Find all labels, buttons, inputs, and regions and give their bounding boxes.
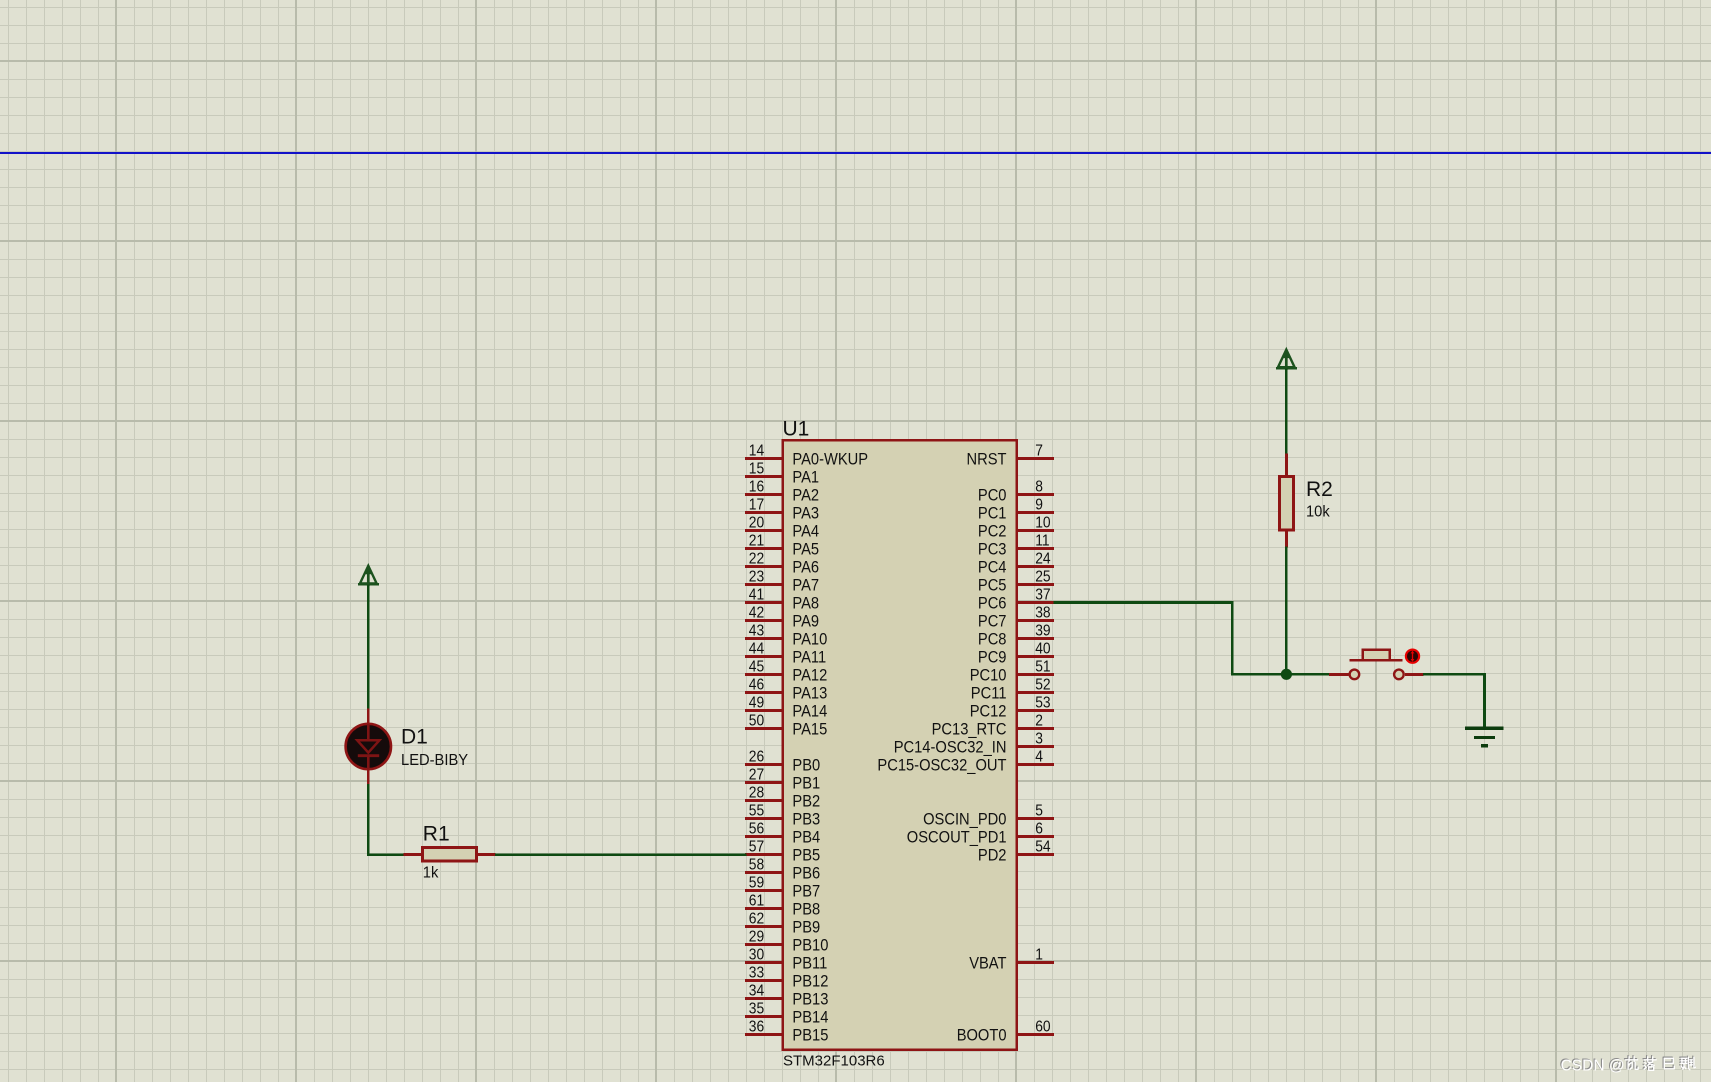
U1 pin 40 PC9 [978,640,1054,666]
svg-text:1: 1 [1035,946,1043,963]
U1 pin 36 PB15 [745,1018,829,1044]
svg-text:PC10: PC10 [970,666,1007,685]
svg-text:17: 17 [749,496,764,513]
svg-text:26: 26 [749,748,764,765]
svg-text:PB2: PB2 [792,792,820,811]
U1 pin 27 PB1 [745,766,820,792]
U1 pin 60 BOOT0 [957,1018,1054,1044]
svg-text:D1: D1 [401,726,428,749]
svg-text:56: 56 [749,820,764,837]
svg-text:42: 42 [749,604,764,621]
svg-text:PA11: PA11 [792,648,826,667]
U1 pin 57 PB5 [745,838,820,864]
svg-text:PC1: PC1 [978,504,1007,523]
svg-text:PA7: PA7 [792,576,819,595]
U1 pin 46 PA13 [745,676,827,702]
resistor R2 [1278,454,1295,548]
svg-text:OSCIN_PD0: OSCIN_PD0 [923,810,1006,829]
watermark CJK char yi [1663,1057,1673,1068]
svg-text:PB6: PB6 [792,864,820,883]
svg-text:PA2: PA2 [792,486,819,505]
svg-text:24: 24 [1035,550,1050,567]
svg-text:PB3: PB3 [792,810,820,829]
wire power to R2 [1285,369,1288,455]
svg-text:U1: U1 [783,418,810,441]
watermark CJK char hua [1625,1056,1638,1069]
U1 pin 7 NRST [967,442,1054,468]
svg-text:14: 14 [749,442,764,459]
svg-text:PA14: PA14 [792,702,827,721]
U1 pin 43 PA10 [745,622,827,648]
svg-text:PB5: PB5 [792,846,820,865]
svg-text:PA13: PA13 [792,684,827,703]
svg-text:PC2: PC2 [978,522,1007,541]
U1 pin 54 PD2 [978,838,1054,864]
U1 pin 16 PA2 [745,478,819,504]
push button (switch) [1329,649,1423,680]
svg-text:46: 46 [749,676,764,693]
svg-text:PB1: PB1 [792,774,820,793]
wire U1 PC6 to corner [1054,601,1234,604]
svg-text:PA15: PA15 [792,720,827,739]
wire power to D1 anode [367,585,370,710]
svg-text:43: 43 [749,622,764,639]
U1 pin 39 PC8 [978,622,1054,648]
U1 pin 56 PB4 [745,820,820,846]
U1 pin 34 PB13 [745,982,829,1008]
svg-text:52: 52 [1035,676,1050,693]
svg-text:27: 27 [749,766,764,783]
svg-text:VBAT: VBAT [969,954,1006,973]
U1 pin 17 PA3 [745,496,819,522]
svg-text:PB10: PB10 [792,936,828,955]
ground symbol [1465,727,1504,748]
svg-text:PA9: PA9 [792,612,819,631]
U1 pin 55 PB3 [745,802,820,828]
U1 pin 1 VBAT [969,946,1054,972]
svg-text:40: 40 [1035,640,1050,657]
svg-text:PB8: PB8 [792,900,820,919]
U1 pin 51 PC10 [970,658,1054,684]
U1 pin 2 PC13_RTC [932,712,1054,738]
U1 pin 25 PC5 [978,568,1054,594]
U1 pin 49 PA14 [745,694,827,720]
wire down to ground [1483,673,1486,728]
watermark CSDN [1560,1057,1625,1075]
sheet border line (blue) [0,152,1711,154]
svg-text:1k: 1k [423,865,440,882]
junction node at R2/button [1281,669,1292,680]
svg-text:STM32F103R6: STM32F103R6 [783,1053,885,1070]
svg-text:PC14-OSC32_IN: PC14-OSC32_IN [894,738,1007,757]
svg-text:BOOT0: BOOT0 [957,1026,1007,1045]
svg-text:59: 59 [749,874,764,891]
button actuator knob (red) [1406,650,1419,663]
svg-text:PB11: PB11 [792,954,827,973]
svg-text:PA8: PA8 [792,594,819,613]
svg-text:51: 51 [1035,658,1050,675]
svg-text:61: 61 [749,892,764,909]
U1 pin 41 PA8 [745,586,819,612]
LED D1 [346,709,391,785]
U1 pin 28 PB2 [745,784,820,810]
svg-text:41: 41 [749,586,764,603]
svg-text:PC8: PC8 [978,630,1007,649]
U1 pin 14 PA0-WKUP [745,442,868,468]
svg-text:OSCOUT_PD1: OSCOUT_PD1 [907,828,1007,847]
svg-text:PB7: PB7 [792,882,820,901]
svg-text:20: 20 [749,514,764,531]
resistor R1 [403,846,495,862]
U1 pin 59 PB7 [745,874,820,900]
U1 pin 38 PC7 [978,604,1054,630]
wire D1 cathode down to R1 row [367,784,370,856]
U1 pin 8 PC0 [978,478,1054,504]
svg-text:LED-BIBY: LED-BIBY [401,752,468,769]
svg-text:49: 49 [749,694,764,711]
wire to button [1231,673,1329,676]
svg-text:29: 29 [749,928,764,945]
svg-text:50: 50 [749,712,764,729]
svg-text:R2: R2 [1306,478,1333,501]
U1 pin 30 PB11 [745,946,827,972]
U1 pin 50 PA15 [745,712,827,738]
svg-text:15: 15 [749,460,764,477]
U1 pin 23 PA7 [745,568,819,594]
svg-text:PC11: PC11 [971,684,1007,703]
wire corner down [1231,601,1234,675]
svg-text:33: 33 [749,964,764,981]
svg-text:PB0: PB0 [792,756,820,775]
wire R2 down to junction [1285,547,1288,676]
svg-text:38: 38 [1035,604,1050,621]
svg-text:PA1: PA1 [792,468,819,487]
svg-text:PB15: PB15 [792,1026,828,1045]
svg-text:10k: 10k [1306,503,1331,520]
svg-text:3: 3 [1035,730,1043,747]
U1 pin 33 PB12 [745,964,829,990]
svg-text:PD2: PD2 [978,846,1007,865]
wire button to ground corner [1423,673,1486,676]
U1 pin 22 PA6 [745,550,819,576]
U1 pin 37 PC6 [978,586,1054,612]
U1 pin 21 PA5 [745,532,819,558]
svg-text:NRST: NRST [967,450,1007,469]
svg-text:57: 57 [749,838,764,855]
svg-text:PA3: PA3 [792,504,819,523]
U1 pin 20 PA4 [745,514,819,540]
svg-text:5: 5 [1035,802,1043,819]
svg-text:PC6: PC6 [978,594,1007,613]
U1 pin 53 PC12 [970,694,1054,720]
U1 pin 61 PB8 [745,892,820,918]
svg-text:9: 9 [1035,496,1043,513]
svg-text:PC3: PC3 [978,540,1007,559]
svg-text:4: 4 [1035,748,1043,765]
svg-text:45: 45 [749,658,764,675]
svg-text:23: 23 [749,568,764,585]
svg-text:35: 35 [749,1000,764,1017]
watermark CJK char luo [1643,1056,1655,1070]
svg-text:CSDN @: CSDN @ [1561,1058,1625,1075]
U1 pin 9 PC1 [978,496,1054,522]
svg-text:PC12: PC12 [970,702,1007,721]
svg-text:22: 22 [749,550,764,567]
U1 pin 10 PC2 [978,514,1054,540]
U1 pin 24 PC4 [978,550,1054,576]
svg-text:53: 53 [1035,694,1050,711]
U1 pin 15 PA1 [745,460,819,486]
U1 pin 44 PA11 [745,640,826,666]
svg-text:30: 30 [749,946,764,963]
svg-text:PC15-OSC32_OUT: PC15-OSC32_OUT [877,756,1006,775]
svg-text:PA0-WKUP: PA0-WKUP [792,450,868,469]
svg-text:PC5: PC5 [978,576,1007,595]
svg-text:PB4: PB4 [792,828,820,847]
svg-text:PB9: PB9 [792,918,820,937]
svg-text:PC7: PC7 [978,612,1007,631]
U1 pin 42 PA9 [745,604,819,630]
power symbol (VCC arrow) above R2 [1276,349,1297,370]
U1 pin 3 PC14-OSC32_IN [894,730,1054,756]
U1 pin 52 PC11 [971,676,1054,702]
U1 pin 26 PB0 [745,748,820,774]
svg-text:PB13: PB13 [792,990,828,1009]
svg-text:6: 6 [1035,820,1043,837]
svg-text:16: 16 [749,478,764,495]
U1 pin 29 PB10 [745,928,829,954]
U1 pin 45 PA12 [745,658,827,684]
svg-text:8: 8 [1035,478,1043,495]
svg-text:10: 10 [1035,514,1050,531]
U1 pin 35 PB14 [745,1000,829,1026]
svg-text:PC0: PC0 [978,486,1007,505]
svg-text:PC13_RTC: PC13_RTC [932,720,1007,739]
U1 pin 5 OSCIN_PD0 [923,802,1054,828]
U1 pin 6 OSCOUT_PD1 [907,820,1054,846]
svg-text:36: 36 [749,1018,764,1035]
watermark CJK char piao [1680,1056,1695,1069]
svg-text:25: 25 [1035,568,1050,585]
svg-text:11: 11 [1035,532,1049,549]
U1 pin 4 PC15-OSC32_OUT [877,748,1053,774]
svg-text:28: 28 [749,784,764,801]
svg-text:PB12: PB12 [792,972,828,991]
MCU U1 [781,439,1018,1051]
svg-text:2: 2 [1035,712,1043,729]
svg-text:PA12: PA12 [792,666,827,685]
svg-text:PA4: PA4 [792,522,819,541]
svg-text:60: 60 [1035,1018,1050,1035]
svg-text:PA5: PA5 [792,540,819,559]
svg-text:PA6: PA6 [792,558,819,577]
wire corner to R1 [367,853,404,856]
svg-text:PC9: PC9 [978,648,1007,667]
U1 pin 62 PB9 [745,910,820,936]
svg-text:54: 54 [1035,838,1050,855]
wire R1 to U1 pin PB5 [495,853,747,856]
svg-text:55: 55 [749,802,764,819]
svg-text:PB14: PB14 [792,1008,828,1027]
svg-text:62: 62 [749,910,764,927]
U1 pin 11 PC3 [978,532,1054,558]
svg-text:34: 34 [749,982,764,999]
svg-text:37: 37 [1035,586,1050,603]
power symbol (VCC arrow) above D1 [358,565,379,586]
svg-text:R1: R1 [423,822,450,845]
svg-text:PA10: PA10 [792,630,827,649]
U1 pin 58 PB6 [745,856,820,882]
svg-text:7: 7 [1035,442,1043,459]
svg-text:39: 39 [1035,622,1050,639]
svg-text:44: 44 [749,640,764,657]
svg-text:21: 21 [749,532,764,549]
svg-text:PC4: PC4 [978,558,1007,577]
svg-text:58: 58 [749,856,764,873]
